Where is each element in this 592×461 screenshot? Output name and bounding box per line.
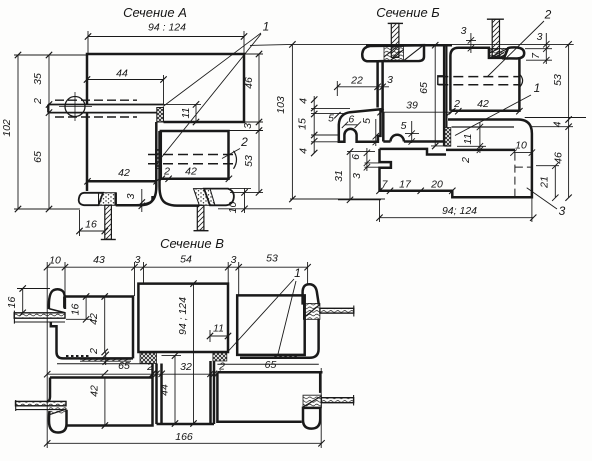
extension stubs left [311, 109, 350, 142]
dimension 10 right [230, 188, 263, 213]
svg-text:35: 35 [32, 73, 44, 85]
dimensions 2 42 right [159, 176, 233, 182]
right frame head lobe [303, 284, 319, 304]
dimension 11 2 rebate [457, 122, 486, 153]
svg-text:94; 124: 94; 124 [442, 205, 477, 217]
svg-text:42: 42 [118, 167, 130, 179]
svg-text:32: 32 [180, 361, 192, 373]
anchor bar upper left [14, 313, 65, 318]
pivot circle [65, 97, 85, 117]
right dim column 46 3 53 [229, 54, 264, 192]
svg-text:6: 6 [348, 113, 354, 125]
seal hatch mullion right [213, 353, 227, 361]
dimension 21 [536, 163, 559, 201]
mullion lower box [157, 361, 215, 424]
lower row right thin line [217, 363, 318, 365]
dimension 44 vertical [162, 356, 182, 424]
foot blob lower left [49, 410, 67, 433]
svg-text:53: 53 [552, 74, 564, 86]
right sash rail [450, 48, 519, 111]
svg-text:103: 103 [275, 96, 287, 114]
svg-text:20: 20 [430, 179, 443, 191]
centre mullion rect [138, 284, 228, 352]
frame bottom rail [380, 149, 516, 155]
extension line bottom right [218, 208, 292, 210]
svg-text:2: 2 [453, 98, 460, 110]
hidden handle dashes [148, 155, 234, 164]
dimension 166 [47, 262, 321, 448]
lower row left thin line [57, 363, 153, 365]
lower-right sash rect [217, 372, 322, 422]
svg-text:1: 1 [263, 20, 270, 34]
screw shaft left [105, 205, 112, 239]
upper-left sash rect [57, 297, 134, 359]
dimension 44 [87, 75, 164, 104]
handle plate tab B [438, 76, 444, 85]
svg-text:44: 44 [116, 68, 128, 80]
seal hatch top [157, 108, 164, 123]
dimensions 7 17 20 [376, 188, 455, 194]
svg-text:10: 10 [227, 202, 239, 214]
dimension 42 left [84, 178, 160, 184]
svg-text:17: 17 [399, 179, 412, 191]
svg-text:3: 3 [242, 123, 254, 129]
frame jamb left [51, 322, 57, 352]
dimension 53 right [525, 44, 586, 126]
screw fastener right [487, 18, 504, 20]
centre stile pair [136, 122, 156, 205]
svg-text:65: 65 [32, 151, 44, 163]
svg-text:5: 5 [401, 120, 407, 132]
svg-text:22: 22 [350, 75, 363, 87]
anchor bar upper right [320, 308, 354, 313]
left sash stile [87, 113, 157, 191]
top extension line [250, 44, 574, 45]
anchor bar lower left [16, 401, 67, 405]
bottom row dim band [47, 373, 217, 375]
svg-text:31: 31 [333, 170, 345, 182]
dotted seal strip right sash [274, 355, 298, 357]
svg-text:2: 2 [88, 348, 100, 355]
svg-text:42: 42 [89, 385, 101, 397]
svg-text:6: 6 [350, 154, 362, 160]
svg-text:15: 15 [297, 118, 309, 130]
svg-text:21: 21 [539, 176, 551, 189]
dimension column 4 15 4 [313, 96, 315, 153]
svg-text:42: 42 [88, 313, 100, 325]
svg-text:Сечение В: Сечение В [160, 236, 224, 251]
screw fastener left [388, 22, 403, 24]
svg-text:54: 54 [180, 254, 192, 266]
dimension 3 bottom [141, 189, 143, 212]
dimensions 35 2 65 [48, 55, 50, 209]
screw seat hatch [490, 48, 509, 58]
svg-text:65: 65 [265, 359, 277, 371]
seal hatch mullion left [140, 353, 157, 364]
dimension 94 124 bottom [380, 198, 534, 222]
svg-text:1: 1 [294, 266, 301, 280]
svg-text:4: 4 [552, 121, 564, 127]
seal squiggle [80, 359, 131, 361]
right glazing bead foot [204, 189, 234, 206]
svg-text:3: 3 [351, 173, 363, 179]
svg-text:3: 3 [231, 254, 237, 266]
seal hatch gap [445, 128, 451, 147]
svg-text:3: 3 [461, 25, 467, 37]
right frame lower edge [319, 372, 322, 393]
svg-text:53: 53 [243, 155, 255, 167]
wedge joint [49, 309, 65, 313]
weatherstrip bar [48, 105, 164, 113]
centre stile pair [378, 61, 383, 112]
svg-text:3: 3 [125, 193, 137, 199]
dimension 42 lower [104, 378, 106, 426]
svg-text:3: 3 [387, 74, 393, 86]
screw head hatch left [99, 193, 116, 205]
dimension 10 dashed pocket [510, 149, 535, 155]
dimension 22 and 3 [337, 81, 389, 96]
svg-text:16: 16 [70, 304, 82, 316]
right frame body [240, 319, 319, 357]
svg-text:2: 2 [240, 135, 248, 149]
left glazing bead foot [79, 193, 103, 205]
svg-text:2: 2 [146, 361, 153, 373]
svg-text:2: 2 [460, 157, 472, 164]
svg-text:Сечение А: Сечение А [123, 5, 187, 20]
svg-text:39: 39 [406, 100, 418, 112]
dimension 42 upper [104, 297, 106, 353]
svg-text:16: 16 [85, 219, 97, 231]
dimension 11 [195, 104, 197, 122]
svg-text:3: 3 [559, 204, 566, 218]
svg-text:2: 2 [544, 8, 552, 22]
dimension 16 [80, 210, 105, 236]
top lobe [504, 47, 524, 58]
svg-text:94 : 124: 94 : 124 [148, 22, 186, 34]
dimension 16 outer [17, 289, 50, 313]
dimension 94 124 vertical [193, 284, 195, 424]
svg-text:11: 11 [213, 323, 224, 335]
top dimension line [47, 266, 308, 268]
right sash rect [237, 295, 305, 355]
svg-text:3: 3 [135, 254, 141, 266]
svg-text:10: 10 [49, 255, 61, 267]
svg-text:3: 3 [537, 31, 543, 43]
drip rail profile [339, 109, 381, 142]
dimension 103 left [290, 44, 385, 199]
svg-text:65: 65 [418, 82, 430, 94]
svg-text:94 ; 124: 94 ; 124 [177, 297, 189, 335]
svg-text:Сечение Б: Сечение Б [376, 5, 440, 20]
svg-text:102: 102 [1, 119, 13, 137]
svg-text:46: 46 [243, 77, 255, 89]
anchor bar lower right [321, 398, 353, 403]
seal hatch mid [156, 150, 161, 169]
svg-text:2: 2 [218, 360, 225, 372]
svg-text:16: 16 [6, 297, 18, 309]
hatch block lower right [303, 395, 321, 408]
hatch block right [303, 303, 320, 319]
svg-text:42: 42 [185, 166, 197, 178]
sash bottom rail left [383, 112, 445, 141]
svg-text:11: 11 [180, 108, 192, 119]
svg-text:2: 2 [163, 166, 170, 178]
svg-text:1: 1 [534, 81, 541, 95]
dimension 11 mullion [210, 330, 228, 342]
foot blob lower right [303, 408, 320, 429]
lower-left sash rect [48, 364, 153, 426]
svg-text:4: 4 [298, 98, 310, 104]
svg-text:166: 166 [175, 431, 193, 443]
svg-text:5: 5 [328, 113, 334, 125]
hidden dashed strip [55, 100, 137, 117]
svg-text:2: 2 [32, 98, 44, 105]
left frame head lobe [49, 289, 65, 309]
sash gap pair [444, 45, 446, 146]
svg-text:5: 5 [361, 118, 373, 124]
svg-text:43: 43 [93, 254, 105, 266]
svg-text:65: 65 [118, 360, 130, 372]
dimension 31 [338, 152, 381, 200]
dimension 102 left [14, 55, 86, 209]
svg-text:46: 46 [553, 152, 565, 164]
dimension 39 [381, 111, 451, 113]
sash top rail outline [87, 54, 244, 122]
dimension 65 [434, 45, 436, 146]
svg-text:42: 42 [477, 98, 489, 110]
dimensions 6 3 notch [364, 148, 379, 171]
frame head rail [362, 45, 424, 61]
dotted seal strip left [66, 355, 90, 357]
dimension 16 inner [66, 297, 92, 320]
inner sash rect [161, 131, 229, 179]
dimension 2 seal [105, 352, 107, 365]
bottom rebate left [116, 192, 153, 205]
hatch block lower left [49, 406, 67, 414]
hidden handle dashes B [438, 77, 519, 85]
svg-text:10: 10 [515, 140, 527, 152]
step line [164, 103, 202, 105]
svg-text:4: 4 [298, 148, 310, 154]
svg-text:53: 53 [266, 253, 278, 265]
screw shaft right [197, 205, 204, 230]
svg-text:11: 11 [462, 134, 474, 145]
